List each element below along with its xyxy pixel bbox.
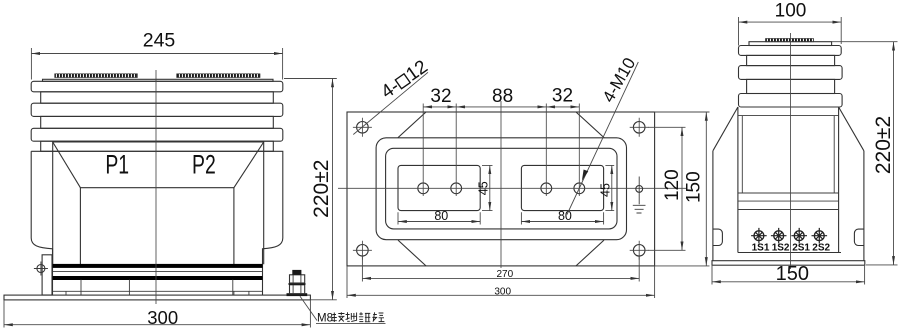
body lower edge line [53,290,263,292]
dim 150 right line [712,281,865,283]
inner frame left [737,107,739,253]
dim 270 line [362,277,639,279]
dim 45 right line [611,165,613,210]
svg-text:270: 270 [496,269,513,280]
svg-text:220±2: 220±2 [872,116,895,174]
terminal cover line 1 [738,192,839,194]
dim 80 right line [521,221,603,223]
main body outline [31,151,283,295]
dim 220 left ext bottom [311,299,337,301]
dim 45 right exts [605,165,614,210]
M8 bolt washer [287,293,308,296]
hole center line 4 [578,104,580,197]
dim 32 right line [546,106,579,108]
dim 150 line [705,112,707,266]
CJK glyph jie [332,312,345,322]
lower body divider right [232,280,234,295]
recess panel inner [80,188,234,265]
terminal pad strip left [55,74,138,78]
body side left [712,151,714,261]
corner chamfer TL [398,112,426,138]
dim 300 mid line [347,294,655,296]
hole center line 3 [545,104,547,197]
dim 100 exts [739,17,842,46]
dim 300 line [4,324,310,326]
bracket screw cross [34,262,48,276]
line between bars [53,271,263,273]
svg-text:P1: P1 [105,149,129,179]
base plate right view [712,261,865,266]
pocket left [398,165,480,210]
cap band [31,81,283,92]
ground screw circle [636,186,643,193]
mount hole TL [353,118,372,137]
shoulder left [713,107,738,151]
dim 300 mid exts [347,267,655,299]
ground screw stem [638,177,640,205]
dim 120 exts [648,127,686,250]
dim 88 line [456,106,546,108]
dim 120 line [681,127,683,250]
body rounded rect inner [386,148,617,229]
leader 4-sq12 [353,72,428,134]
dim 300 ext right [309,300,311,328]
terminal screw 1S2 [771,228,787,244]
top plate [749,42,832,46]
rib 2 [739,66,843,80]
dim 245 ext right [282,48,284,80]
panel draft diagonal left [53,142,81,188]
dim 220 right line [893,42,895,265]
foot line d [248,291,250,295]
terminal box bottom [738,252,841,254]
dim 80 left line [398,221,480,223]
corner chamfer TR [576,112,604,138]
svg-text:45: 45 [599,183,613,197]
primary hole 2 [451,183,462,194]
svg-text:M8: M8 [317,313,333,325]
svg-text:32: 32 [552,86,573,107]
dim 150 right exts [712,266,865,285]
leader 4-M10 [567,62,638,215]
M8 bolt upper block [290,275,305,283]
svg-text:P2: P2 [192,149,216,179]
mount hole TR [630,118,649,137]
svg-text:88: 88 [492,86,513,107]
dim 80 left exts [398,212,480,224]
rib 3 [739,94,843,108]
pocket right [521,165,603,210]
svg-text:32: 32 [430,86,451,107]
terminal cover line 2 [738,200,839,202]
svg-text:1S2: 1S2 [772,242,790,253]
center line [155,70,157,304]
inner frame left 2 [741,116,743,193]
panel draft diagonal right [234,142,264,188]
inner frame top line [738,115,839,117]
dim 270 exts [362,257,639,282]
svg-text:45: 45 [477,181,491,195]
body side right [863,151,865,261]
dim 100 line [739,21,842,23]
svg-text:2S2: 2S2 [812,242,830,253]
busbar 1 [53,264,263,268]
side notch right [854,229,864,245]
dim 220 left line [332,79,334,300]
recess panel outer [53,142,264,264]
body rounded rect outer [376,138,626,240]
dim 245 ext left [30,48,32,80]
side notch left [713,229,723,245]
corner chamfer BR [576,240,604,266]
center line right view [790,33,792,269]
foot line c [233,291,235,295]
svg-text:245: 245 [143,29,176,51]
vertical center line [500,101,502,268]
primary hole 3 [541,183,552,194]
svg-text:1S1: 1S1 [752,242,770,253]
terminal screw 1S1 [751,228,767,244]
svg-text:80: 80 [434,209,448,223]
corner chamfer BL [398,240,426,266]
terminal screw 2S2 [812,228,828,244]
base flange outer rect [347,112,655,266]
hole center line 1 [422,104,424,197]
mount hole BR [630,241,649,260]
dim 220 right ext top [832,41,898,43]
ground bracket [42,255,52,295]
primary hole 4 [574,183,585,194]
base plate [4,295,310,300]
mount hole BL [353,241,372,260]
M8 bolt cap [292,270,301,275]
label 4-sq12 [377,56,431,103]
dim 220 left ext top [284,78,337,80]
M8 label underline [316,322,386,324]
svg-text:100: 100 [775,1,807,22]
svg-text:150: 150 [684,171,705,203]
dim 80 right exts [521,212,603,224]
inner frame right 2 [833,116,835,193]
dim 150 exts [655,112,710,266]
terminal pad strip right [177,74,260,78]
svg-text:120: 120 [662,169,683,201]
foot line b [80,280,82,295]
primary hole 1 [418,183,429,194]
bracket screw circle [37,265,45,273]
M8 bolt middle band [289,283,306,285]
M8 leader line [300,296,317,320]
shoulder right [839,107,864,151]
CJK glyph di [346,312,357,321]
svg-text:150: 150 [776,263,809,285]
leader 4-M10 arrowhead [582,170,588,181]
rib 2 [31,103,283,116]
svg-text:300: 300 [147,307,178,328]
CJK glyph si [372,312,384,321]
ground symbol [633,205,646,213]
neck 1 [747,55,835,65]
dim 300 ext left [3,300,5,328]
dim 220 right ext bottom [866,264,898,266]
busbar 2 [53,276,263,280]
svg-text:220±2: 220±2 [310,160,333,218]
svg-text:80: 80 [558,209,572,223]
horizontal center line [338,187,686,189]
rib 3 [31,128,283,141]
dim 45 left exts [482,165,493,210]
inner frame right [838,107,840,253]
svg-text:300: 300 [494,287,511,298]
terminal pad strip [766,39,814,42]
M8 bolt lower block [290,285,305,294]
neck notch [41,141,274,151]
dim 245 line [31,53,282,55]
foot line a [65,291,67,295]
svg-text:2S1: 2S1 [792,242,810,253]
neck 2 [41,116,274,128]
cap band [739,46,842,56]
dim 32 left line [423,106,456,108]
terminal cover line 3 [738,209,839,211]
neck 1 [41,92,274,103]
CJK glyph luo [359,312,370,322]
terminal screw 2S1 [791,228,807,244]
top plate [43,79,274,81]
hole center line 2 [455,104,457,197]
neck 2 [747,79,835,93]
lower body divider left [128,280,130,295]
dim 45 left line [489,165,491,210]
